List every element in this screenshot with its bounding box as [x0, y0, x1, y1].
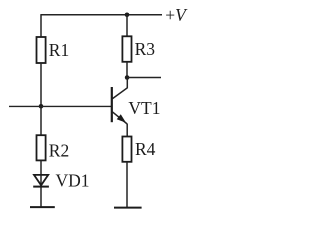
wire R3 top lead — [126, 15, 128, 37]
ground right — [114, 207, 142, 209]
svg-text:R3: R3 — [135, 39, 156, 59]
wire R2 bottom lead through diode to ground — [40, 160, 42, 207]
resistor R3 — [122, 36, 155, 62]
node supply rail dot — [125, 13, 130, 18]
wire top supply rail — [41, 14, 162, 16]
diode VD1 — [33, 171, 89, 191]
resistor R2 — [37, 135, 70, 161]
wire R3 bottom lead to collector node — [126, 62, 128, 78]
label +V supply — [165, 5, 188, 25]
wire R1 bottom lead to base node — [40, 63, 42, 107]
wire R2 top lead — [40, 106, 42, 135]
transistor VT1 — [112, 79, 161, 138]
svg-text:VT1: VT1 — [128, 98, 160, 118]
node collector junction dot — [125, 75, 130, 80]
ground left — [30, 206, 55, 208]
svg-text:R4: R4 — [135, 139, 156, 159]
svg-text:R2: R2 — [49, 141, 69, 161]
node base junction dot — [39, 104, 44, 109]
wire R1 top lead (rail corner down) — [40, 14, 42, 37]
wire R4 bottom lead to ground — [126, 162, 128, 208]
svg-text:R1: R1 — [49, 40, 69, 60]
wire base input (horizontal) — [9, 105, 112, 107]
wire collector output (horizontal) — [127, 77, 161, 79]
svg-text:+V: +V — [165, 5, 188, 25]
resistor R1 — [37, 37, 70, 63]
svg-text:VD1: VD1 — [56, 171, 90, 191]
resistor R4 — [122, 137, 155, 162]
